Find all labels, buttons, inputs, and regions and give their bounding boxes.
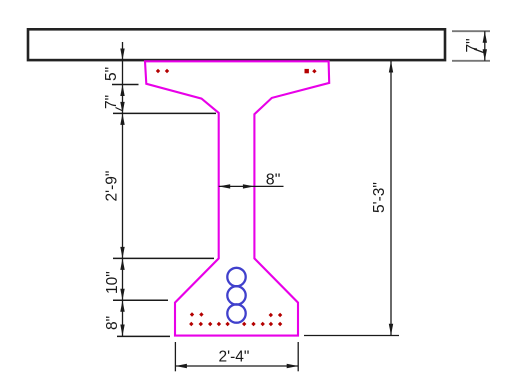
- extension line bottom right: [304, 335, 399, 337]
- tick y84.5: [112, 84, 139, 86]
- right 5-3 dimension line: [390, 61, 392, 335]
- arrow up tip y258.4: [120, 258, 124, 270]
- 2-4 dim line: [175, 365, 298, 367]
- arrow down tip y60.8: [483, 49, 487, 61]
- arrow right tip: [287, 364, 299, 368]
- 2-4 ext right: [297, 342, 299, 371]
- arrow down tip y300.2: [120, 289, 124, 301]
- rebar dot top-right A: [305, 69, 309, 73]
- arrow left tip: [175, 364, 187, 368]
- 7in slab dim line: [484, 31, 486, 61]
- svg-text:7": 7": [103, 95, 120, 109]
- deck slab: [28, 29, 445, 60]
- arrow up tip y61: [389, 61, 393, 73]
- svg-text:10": 10": [104, 271, 121, 294]
- svg-text:2'-9": 2'-9": [104, 171, 121, 202]
- arrow up tip y113.4: [120, 113, 124, 125]
- arrow down tip y60: [120, 49, 124, 61]
- 7in leader: [474, 49, 484, 53]
- 7in slab ext bottom: [452, 60, 490, 62]
- svg-text:8": 8": [266, 172, 281, 189]
- bottom rebar upper row: [190, 312, 282, 317]
- svg-text:2'-4": 2'-4": [219, 349, 250, 366]
- tick y300.2: [113, 299, 168, 301]
- tick y113.4: [113, 112, 216, 114]
- web arrow left: [219, 184, 231, 188]
- tick y336.4 bottom: [117, 335, 170, 337]
- arrow up tip y84.5: [120, 85, 124, 97]
- girder outline: [145, 61, 329, 335]
- 2-4 ext left: [174, 342, 176, 371]
- tick y258.4: [113, 257, 214, 259]
- left dimension chain line: [122, 42, 124, 336]
- arrow down tip y113.4: [120, 102, 124, 114]
- arrow up tip y31.7: [483, 31, 487, 43]
- arrow up tip y300.2: [120, 300, 124, 312]
- label 7in leader: [116, 108, 124, 112]
- svg-text:5'-3": 5'-3": [371, 182, 388, 213]
- strand duct 3: [227, 304, 245, 322]
- arrow down tip y258.4: [120, 247, 124, 259]
- rebar dot top-right B: [312, 69, 316, 73]
- strand duct 2: [227, 286, 245, 304]
- svg-text:8": 8": [104, 316, 121, 330]
- svg-text:7": 7": [464, 38, 481, 52]
- bottom rebar lower row: [189, 322, 282, 326]
- arrow down tip y336: [120, 325, 124, 337]
- arrow down tip y335.3: [389, 324, 393, 336]
- web arrow right: [243, 184, 255, 188]
- 7in slab ext top: [452, 30, 490, 32]
- rebar dot top-left A: [156, 69, 160, 73]
- svg-text:5": 5": [103, 67, 120, 81]
- strand duct 1: [227, 268, 245, 286]
- rebar dot top-left B: [165, 69, 169, 73]
- web 8in dimension line: [219, 185, 284, 187]
